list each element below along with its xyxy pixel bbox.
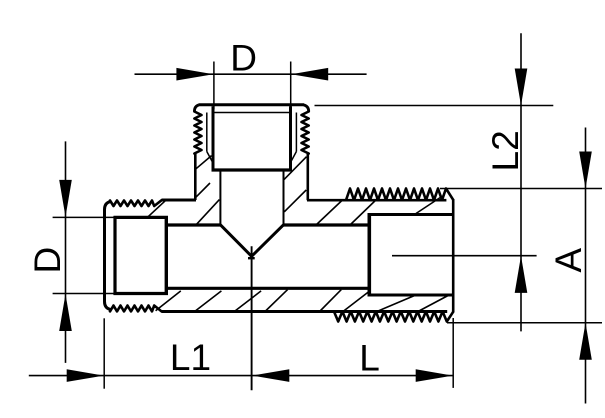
dimension D top extension line left	[213, 62, 215, 110]
section hatch line 4	[196, 156, 212, 170]
wire body top edge left segment	[162, 199, 197, 202]
section hatch line 1	[148, 201, 165, 217]
section hatch line 7	[316, 200, 343, 226]
drill cone V left leg	[220, 225, 251, 256]
right port face line	[452, 199, 455, 313]
dimension L1-L dimension line	[29, 375, 453, 377]
branch left outer wall below threads	[194, 154, 197, 201]
run bore bottom line	[168, 287, 368, 290]
dimension L2 up arrow	[515, 256, 528, 293]
svg-text:A: A	[548, 248, 589, 273]
wire body bottom edge + right port bottom thread root line	[162, 310, 448, 313]
dimension D left extension line bottom	[53, 293, 114, 295]
section hatch line 15	[343, 292, 369, 312]
dimension L right arrow	[416, 369, 453, 382]
dimension L1 extension line left port face	[103, 318, 105, 388]
dimension D top left arrow	[176, 68, 213, 81]
dimension D top extension line right	[290, 62, 292, 110]
svg-text:L2: L2	[485, 130, 526, 171]
dimension L2 dimension line	[520, 33, 522, 331]
dimension L2 extension line branch top	[315, 105, 554, 107]
section hatch line 9	[416, 196, 443, 214]
right socket bore bottom edge	[368, 294, 454, 297]
right port top external thread zigzag with end chamfer	[346, 189, 453, 201]
branch face left corner curl	[194, 105, 199, 112]
right port bottom external thread zigzag with end chamfer	[334, 312, 453, 322]
left socket bore bottom edge	[114, 292, 169, 295]
section hatch line 2	[196, 200, 219, 225]
section hatch line 14	[319, 290, 341, 312]
dimension A extension line bottom	[447, 322, 602, 324]
dimension L extension line right port face	[452, 318, 454, 388]
svg-text:D: D	[230, 37, 257, 78]
branch face line	[199, 103, 304, 106]
branch vertical centerline	[251, 246, 253, 390]
run bore top line right of cone	[284, 223, 369, 226]
branch right outer wall below threads	[306, 154, 309, 201]
dimension L1 label	[170, 337, 211, 378]
dimension A down arrow	[579, 152, 592, 189]
right socket bore deep-end edge	[367, 213, 371, 297]
branch bore left wall	[212, 106, 215, 171]
center mark tick at cone apex	[248, 257, 255, 259]
svg-text:D: D	[27, 247, 68, 274]
dimension D top dimension line	[135, 73, 367, 75]
drill cone V right leg	[252, 225, 284, 256]
dimension D top label	[230, 37, 257, 78]
run bore top line left of cone	[168, 223, 221, 226]
branch pilot bore right wall	[283, 170, 285, 225]
dimension L1 right arrow at centerline	[252, 369, 289, 382]
dimension D left down arrow	[59, 180, 72, 217]
section hatch line 6	[284, 157, 307, 180]
dimension A extension line top	[440, 188, 602, 190]
section hatch line 11	[196, 291, 222, 311]
dimension A up arrow	[579, 323, 592, 360]
branch left thread root relief line	[206, 113, 208, 152]
branch bore right wall	[289, 106, 292, 171]
branch bore mouth chamfer line	[213, 112, 291, 114]
branch left thread root runout connector	[207, 152, 213, 164]
dimension L label	[359, 338, 380, 379]
branch bore bottom edge	[212, 168, 293, 171]
left port face line	[105, 202, 111, 310]
branch pilot bore left wall	[219, 170, 221, 225]
section hatch line 17	[418, 295, 450, 312]
dimension L2 down arrow	[515, 69, 528, 106]
section hatch line 10	[156, 291, 181, 311]
dimension D left dimension line	[65, 141, 67, 363]
branch right thread root runout connector	[290, 152, 296, 164]
branch right thread root relief line	[295, 113, 297, 152]
wire body top edge right segment + right port thread root line	[307, 199, 446, 202]
dimension L1 left arrow	[67, 369, 104, 382]
branch left external thread zigzag	[194, 112, 201, 154]
left socket bore left edge	[113, 216, 116, 295]
dimension D top right arrow	[291, 68, 328, 81]
svg-text:L: L	[359, 338, 380, 379]
branch right external thread zigzag	[302, 112, 309, 154]
dimension D left extension line top	[53, 216, 114, 218]
dimension D left up arrow	[59, 294, 72, 331]
svg-text:L1: L1	[170, 337, 211, 378]
section hatch line 16	[377, 295, 417, 312]
dimension L2 label	[485, 130, 526, 171]
right port horizontal centerline	[392, 255, 537, 257]
dimension D left label	[27, 247, 68, 274]
left port bottom external thread zigzag	[110, 306, 162, 312]
right socket bore top edge	[368, 213, 454, 216]
dimension A label	[548, 248, 589, 273]
section hatch line 8	[350, 197, 379, 225]
section hatch line 3	[195, 183, 210, 198]
section hatch line 13	[265, 290, 288, 312]
left port top external thread zigzag	[110, 200, 162, 206]
left socket bore top edge	[114, 216, 169, 219]
dimension A dimension line	[585, 128, 587, 404]
section hatch line 12	[235, 291, 261, 311]
left socket bore deep-end edge	[165, 216, 168, 295]
section hatch line 5	[284, 190, 306, 212]
branch face right corner curl	[304, 105, 309, 112]
